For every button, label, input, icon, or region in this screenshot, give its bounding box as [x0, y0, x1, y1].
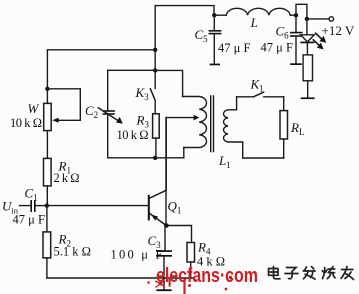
terminal +12V open circle [329, 17, 333, 21]
node L / C6 junction [294, 13, 298, 17]
svg-text:R3: R3 [136, 113, 150, 130]
transformer L1 secondary winding [223, 97, 242, 158]
resistor R5 (LED series) [301, 55, 315, 99]
svg-text:47 μ F: 47 μ F [218, 41, 250, 55]
wire L right lead [290, 14, 296, 16]
node emitter junction [164, 223, 169, 228]
wire main vertical from top rail [154, 6, 156, 71]
wire K3-box bottom [108, 148, 184, 158]
svg-text:+12 V: +12 V [322, 23, 355, 38]
wire secondary loop bottom [243, 157, 284, 159]
switch K1 [237, 92, 284, 97]
wire R3 bottom lead [155, 138, 157, 158]
svg-text:47 μ F: 47 μ F [261, 41, 293, 55]
svg-text:5.1 k Ω: 5.1 k Ω [54, 245, 91, 259]
transistor Q1 [148, 118, 167, 226]
watermark chinese 电子发烧友 [269, 267, 354, 280]
wire K3-box left side upper [107, 70, 109, 110]
svg-text:K3: K3 [135, 85, 150, 102]
wire top rail [155, 6, 214, 16]
transformer core [211, 96, 214, 152]
node potentiometer wiper tie [45, 87, 49, 91]
LED emission arrow 1 [316, 33, 327, 43]
resistor R3 [153, 114, 160, 138]
svg-text:C6: C6 [276, 24, 290, 41]
svg-text:C1: C1 [25, 186, 38, 203]
svg-text:C5: C5 [195, 27, 209, 44]
wire left branch at y50 [47, 50, 155, 89]
capacitor C5 [209, 15, 222, 65]
wire bottom rail [47, 277, 194, 279]
svg-text:Q1: Q1 [168, 199, 182, 216]
switch K3 [150, 70, 155, 113]
inductor L [226, 8, 290, 15]
resistor R1 [44, 158, 52, 186]
wire to +12V terminal [307, 18, 329, 20]
wire K3-box left side lower [107, 115, 109, 158]
node top-rail / L / C5 junction [212, 13, 216, 17]
svg-text:L: L [250, 15, 258, 30]
wire wiper loop [47, 89, 80, 121]
svg-text:L1: L1 [218, 153, 231, 170]
LED D1 [300, 19, 314, 55]
resistor R4 [166, 226, 194, 279]
LED emission arrow 2 [313, 40, 323, 50]
ground [156, 278, 171, 291]
capacitor C6 [290, 15, 303, 65]
svg-text:10 k Ω: 10 k Ω [117, 128, 149, 142]
capacitor C3 [156, 226, 172, 279]
svg-text:elecfans·com: elecfans·com [156, 265, 258, 287]
node LED / +12V junction [305, 17, 309, 21]
wire jog over C6 to LED branch [296, 4, 307, 19]
wire centre-tap with arrow [166, 115, 199, 226]
transformer L1 primary winding [183, 97, 207, 148]
wire R1 to base node [46, 186, 48, 206]
wiper arrowhead [52, 118, 58, 123]
resistor R2 [43, 206, 51, 278]
svg-text:C2: C2 [85, 103, 98, 120]
node main vertical / K3-box top junction [153, 68, 157, 72]
capacitor C2 (variable) [98, 108, 123, 124]
wire L left lead [214, 14, 226, 16]
wire K3-box top [108, 70, 183, 96]
svg-text:100 μ F: 100 μ F [111, 248, 163, 262]
watermark elecfans.com [147, 265, 258, 294]
node base junction [45, 203, 49, 207]
resistor RL [280, 97, 288, 158]
wire base [47, 205, 148, 207]
svg-text:10 k Ω: 10 k Ω [10, 116, 42, 130]
node main vertical / left branch junction [153, 48, 157, 52]
node R3 bottom junction [153, 156, 157, 160]
svg-text:47 μ F: 47 μ F [13, 213, 45, 227]
svg-text:W: W [28, 101, 40, 116]
potentiometer W [44, 89, 52, 159]
capacitor C1 [20, 200, 47, 212]
svg-text:2 k Ω: 2 k Ω [54, 171, 80, 185]
svg-text:K1: K1 [250, 77, 264, 94]
svg-text:RL: RL [290, 120, 304, 137]
